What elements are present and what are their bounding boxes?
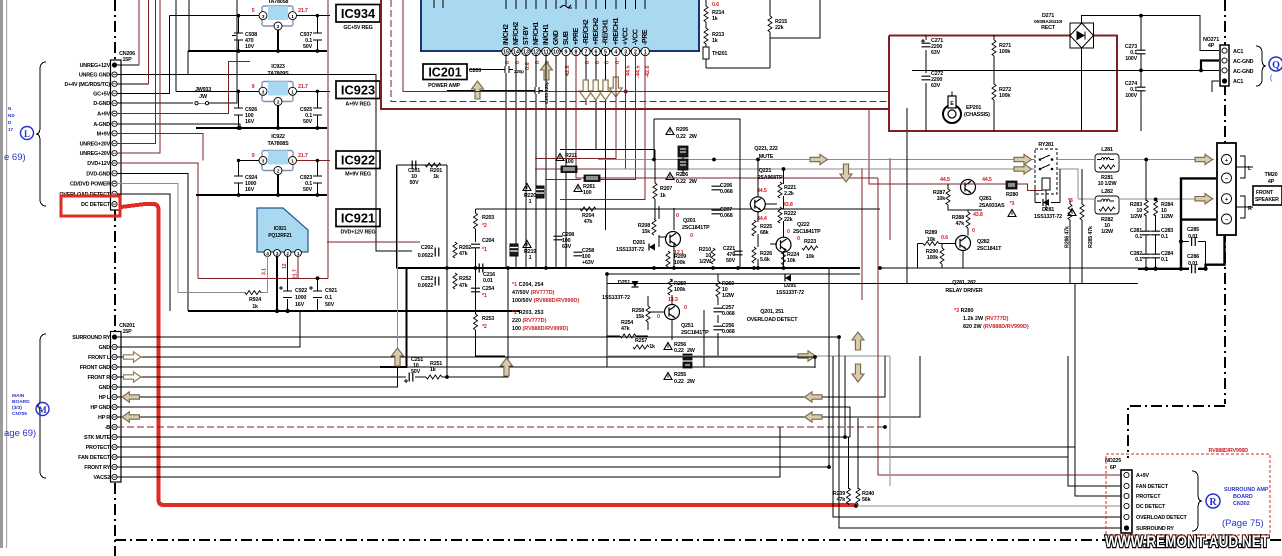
svg-text:TA78058: TA78058 — [268, 0, 289, 5]
resistor R209 — [666, 251, 686, 267]
svg-text:A+9V: A+9V — [1136, 473, 1149, 479]
speaker terminal block TM201 — [1217, 143, 1236, 235]
wire AC-GND long — [912, 69, 1219, 71]
wire bridge bottom — [1081, 48, 1083, 131]
connector NO225 pin labels — [1136, 473, 1188, 532]
capacitor C922 — [279, 256, 307, 311]
page edge line — [6, 0, 7, 548]
svg-text:C921: C921 — [325, 288, 337, 294]
svg-text:AC-GND: AC-GND — [1233, 69, 1254, 75]
svg-text:HP L: HP L — [99, 395, 111, 401]
main bus y268 — [397, 267, 860, 269]
capacitor C254 — [471, 286, 494, 299]
arrow right FRONT R — [124, 372, 142, 382]
resistor R261 boxed — [574, 175, 600, 196]
resistor R271 — [992, 40, 1011, 56]
maroon rail dashed y101.6 — [391, 0, 889, 102]
maroon rail to relay coil — [930, 180, 1035, 185]
wire pin2 maroon -VCC — [545, 54, 635, 179]
svg-text:PQ12RF21: PQ12RF21 — [268, 233, 292, 239]
wire UNREG+12V — [117, 64, 139, 66]
wire pin7 stub — [585, 54, 587, 105]
connector CN201 body — [111, 332, 122, 483]
svg-text:1/2W: 1/2W — [1161, 214, 1174, 220]
svg-text:6P: 6P — [1110, 465, 1117, 471]
maroon stub y242 — [327, 241, 420, 243]
svg-text:50V: 50V — [410, 180, 420, 186]
svg-text:1: 1 — [529, 199, 532, 205]
svg-text:0.01: 0.01 — [1188, 261, 1198, 267]
wire pin10 down — [555, 56, 557, 268]
blue note MAIN BOARD (3/3) — [12, 393, 30, 417]
circled M — [36, 403, 49, 416]
box FRONT SPEAKER — [1253, 186, 1282, 205]
svg-text:1k: 1k — [712, 38, 718, 44]
svg-text:1k: 1k — [712, 16, 718, 22]
svg-text:HP R: HP R — [98, 415, 110, 421]
svg-text:16V: 16V — [245, 187, 255, 193]
svg-text:IC923: IC923 — [271, 64, 285, 70]
svg-text:DVD+12V: DVD+12V — [87, 161, 110, 167]
svg-text:UNREG GND: UNREG GND — [79, 73, 110, 79]
svg-text:IC922: IC922 — [271, 134, 285, 140]
resistor R221 — [778, 182, 796, 198]
wire IC934 output — [297, 15, 331, 17]
svg-text:R203: R203 — [482, 215, 494, 221]
svg-text:GC+5V REG: GC+5V REG — [343, 25, 372, 31]
svg-text:AC1: AC1 — [1233, 49, 1243, 55]
IC201 internal arrow glyph — [560, 5, 572, 8]
svg-text:1/2W: 1/2W — [722, 293, 735, 299]
svg-text:0.22: 0.22 — [676, 179, 686, 185]
svg-text:BOARD: BOARD — [12, 399, 30, 405]
svg-text:SURROUND RY: SURROUND RY — [72, 335, 110, 341]
svg-text:Q282: Q282 — [977, 239, 990, 245]
svg-text:R252: R252 — [459, 276, 471, 282]
svg-text:1SS133T-72: 1SS133T-72 — [1034, 214, 1062, 220]
svg-text:VACS2: VACS2 — [93, 475, 110, 481]
wire pin13 down — [525, 54, 527, 268]
svg-text:C203: C203 — [469, 68, 481, 74]
svg-text:IC922: IC922 — [341, 153, 375, 168]
wire UNREG+20V a — [117, 0, 155, 143]
svg-text:A-GND: A-GND — [93, 122, 110, 128]
svg-text:−: − — [1225, 218, 1228, 224]
capacitor C925 — [300, 91, 322, 128]
svg-text:43.8: 43.8 — [783, 202, 793, 208]
svg-text:0: 0 — [690, 233, 693, 239]
svg-text:2W: 2W — [689, 134, 698, 140]
svg-text:PROTECT: PROTECT — [86, 445, 111, 451]
svg-text:0.1: 0.1 — [1161, 234, 1168, 240]
svg-text:15k: 15k — [642, 229, 651, 235]
svg-text:0.068: 0.068 — [720, 189, 733, 195]
svg-text:R253: R253 — [482, 316, 494, 322]
svg-text:13.3: 13.3 — [668, 297, 678, 303]
svg-text:-RE/CH2: -RE/CH2 — [583, 19, 590, 45]
svg-text:L: L — [24, 129, 30, 139]
resistor R240 — [856, 418, 874, 505]
capacitor C202 — [418, 245, 439, 259]
svg-text:*2: *2 — [482, 223, 487, 229]
svg-text:1/2W: 1/2W — [1130, 214, 1143, 220]
resistor R219 boxed — [510, 241, 536, 262]
svg-text:0: 0 — [787, 229, 790, 235]
svg-text:-VCC: -VCC — [632, 29, 639, 45]
svg-text:50V: 50V — [303, 187, 313, 193]
svg-text:+: + — [1225, 158, 1228, 164]
svg-text:1SS133T-72: 1SS133T-72 — [602, 295, 630, 301]
svg-text:R289: R289 — [925, 230, 937, 236]
resistor R260 — [716, 281, 735, 299]
svg-text:R206: R206 — [676, 172, 688, 178]
wire bridge top to AC1 — [1082, 16, 1219, 51]
maroon rail right mid — [535, 57, 616, 158]
wire HP R — [117, 356, 920, 417]
resistor R285 — [1080, 204, 1094, 248]
jumper JW933 — [195, 87, 211, 105]
svg-text:100k: 100k — [674, 287, 685, 293]
label box IC934 — [336, 5, 380, 32]
svg-text:Q221, 222: Q221, 222 — [754, 146, 778, 152]
regulator IC934 TA78058 — [259, 0, 297, 30]
resistor R220 boxed — [523, 184, 544, 206]
arrow right speaker lower — [1195, 194, 1213, 204]
resistor R215 — [768, 16, 787, 32]
wire DVD-GND — [117, 173, 188, 311]
capacitor C923 — [300, 161, 322, 196]
vertical riser c — [844, 356, 846, 437]
resistor R287 — [933, 189, 950, 205]
wire C273 column — [1140, 16, 1142, 131]
arrow down tan c — [599, 80, 612, 100]
thermistor TH201 — [703, 47, 727, 59]
resistor R252 — [453, 273, 471, 289]
capacitor C203 — [469, 66, 524, 74]
svg-text:+VCC: +VCC — [623, 27, 630, 45]
svg-text:0.0022: 0.0022 — [418, 253, 433, 259]
wire pin6 stub — [560, 54, 596, 150]
svg-text:EP201: EP201 — [966, 105, 981, 111]
svg-text:2SC1841TP: 2SC1841TP — [681, 330, 709, 336]
svg-text:PROTECT: PROTECT — [1136, 494, 1161, 500]
svg-text:47k: 47k — [584, 219, 593, 225]
wire FRONT R cont — [415, 268, 508, 377]
label box IC921 — [336, 209, 380, 236]
svg-text:ST-BY: ST-BY — [523, 26, 530, 45]
svg-text:21.7: 21.7 — [298, 153, 308, 159]
svg-text:Q201: Q201 — [683, 218, 696, 224]
capacitor C204 — [471, 238, 494, 268]
svg-text:100/50V (RV888D/RV999D): 100/50V (RV888D/RV999D) — [512, 298, 579, 304]
svg-text:15P: 15P — [123, 329, 133, 335]
arrow right speaker upper — [1195, 154, 1213, 164]
wire AC-GND thick jumper — [1201, 61, 1219, 71]
svg-text:1SS133T-72: 1SS133T-72 — [776, 290, 804, 296]
circled L — [21, 127, 34, 140]
ground bus under IC921 — [188, 310, 520, 312]
svg-text:IC934: IC934 — [341, 6, 376, 21]
svg-text:63V: 63V — [562, 244, 572, 250]
arrow right relay lower — [1014, 164, 1032, 174]
svg-text:*1: *1 — [482, 247, 487, 253]
warning triangle relay — [1068, 209, 1076, 216]
svg-text:0: 0 — [684, 305, 687, 311]
brace CN201 — [36, 334, 46, 478]
resistor R224 — [782, 249, 800, 265]
svg-text:WWW.REMONT-AUD.NET: WWW.REMONT-AUD.NET — [1105, 533, 1269, 551]
resistor R208 — [638, 219, 656, 235]
resistor blocks R256 R255 — [683, 354, 692, 368]
svg-text:0.22: 0.22 — [676, 134, 686, 140]
capacitor C924 — [234, 161, 257, 196]
svg-text:RELAY DRIVER: RELAY DRIVER — [945, 288, 982, 294]
regulator IC922 TA7808S — [259, 134, 297, 175]
capacitor C216 — [479, 264, 495, 285]
svg-text:*3: *3 — [1010, 201, 1015, 207]
arrow up center b — [501, 358, 513, 376]
wire IC923 pin2 down — [277, 106, 279, 129]
svg-text:0.068: 0.068 — [722, 311, 735, 317]
wire Q251 connections — [648, 279, 672, 340]
svg-text:Q221: Q221 — [759, 168, 772, 174]
resistor R259 — [668, 279, 686, 295]
svg-text:+PRE: +PRE — [573, 27, 580, 45]
wire GND b — [117, 349, 398, 387]
SECTION-BOTTOM — [4, 165, 1270, 535]
resistor R239 — [833, 437, 851, 505]
svg-text:2.2k: 2.2k — [784, 191, 794, 197]
svg-text:R285 47k: R285 47k — [1088, 226, 1094, 248]
svg-text:RY281: RY281 — [1038, 142, 1053, 148]
connector CN206 pins — [112, 62, 117, 206]
svg-text:100: 100 — [583, 190, 592, 196]
capacitor C251 — [404, 357, 423, 383]
svg-text:NF/CH1: NF/CH1 — [533, 22, 540, 45]
svg-text:15k: 15k — [636, 314, 645, 320]
svg-text:CN705: CN705 — [12, 411, 27, 417]
svg-text:0.01: 0.01 — [483, 278, 493, 284]
svg-text:M: M — [38, 405, 47, 415]
wire D+4V riser — [148, 0, 150, 84]
svg-text:SURROUND AMP: SURROUND AMP — [1224, 487, 1269, 493]
IC201 pin labels — [503, 18, 649, 45]
svg-text:10k: 10k — [787, 258, 796, 264]
SECTION-CENTER — [397, 108, 1042, 385]
resistor R254 — [607, 320, 648, 338]
svg-text:C204: C204 — [482, 238, 494, 244]
wire IC923 input feed — [175, 0, 177, 91]
svg-text:1k: 1k — [433, 174, 439, 180]
capacitor C285 — [1187, 227, 1199, 246]
svg-text:47k: 47k — [621, 326, 630, 332]
wire Q201 connections — [659, 206, 674, 268]
svg-text:+RE/CH1: +RE/CH1 — [613, 18, 620, 45]
capacitor C271 — [921, 38, 943, 56]
resistor R211 boxed — [556, 153, 577, 173]
svg-text:C202: C202 — [421, 245, 433, 251]
capacitor C286 — [1187, 254, 1199, 273]
svg-text:100k: 100k — [999, 49, 1010, 55]
svg-text:1k: 1k — [649, 344, 655, 350]
wire A-GND — [117, 124, 240, 128]
svg-text:(3/3): (3/3) — [12, 405, 22, 411]
junction dots IC921 bus — [275, 276, 320, 313]
capacitor C284 — [1151, 251, 1173, 263]
resistor R256 with warning — [664, 342, 696, 354]
svg-text:100k: 100k — [674, 260, 685, 266]
svg-text:GC+5V: GC+5V — [93, 91, 110, 97]
svg-text:UNREG+12V: UNREG+12V — [80, 63, 111, 69]
mute label — [754, 146, 778, 160]
capacitor C221 — [723, 246, 743, 264]
svg-text:50V: 50V — [303, 44, 313, 50]
brace NO225 — [1192, 471, 1202, 531]
label box IC201 — [423, 64, 467, 89]
svg-text:0.1: 0.1 — [1135, 234, 1142, 240]
diode D281 — [1034, 199, 1062, 220]
svg-text:R255: R255 — [674, 372, 686, 378]
circled Q blue — [1269, 57, 1282, 82]
label relay driver — [945, 280, 982, 294]
svg-text:4P: 4P — [1268, 179, 1275, 185]
diode D291 — [776, 275, 804, 297]
svg-text:FRONT: FRONT — [1256, 190, 1274, 196]
brace NO271 — [1256, 46, 1266, 86]
wire pin5 stub — [605, 54, 607, 230]
svg-text:2SA968TP: 2SA968TP — [758, 175, 783, 181]
resistor R204 — [580, 207, 596, 225]
svg-text:50V: 50V — [325, 302, 335, 308]
svg-text:1k: 1k — [252, 304, 258, 310]
svg-text:HP GND: HP GND — [90, 405, 110, 411]
connector NO271 — [1203, 37, 1254, 92]
svg-text:-PRE: -PRE — [642, 29, 649, 45]
capacitor C281 — [1130, 228, 1151, 240]
wire PSU columns — [926, 35, 994, 131]
svg-text:1000: 1000 — [295, 295, 306, 301]
overload frame top — [607, 273, 860, 275]
wire IC923 ground bus — [196, 127, 327, 129]
svg-text:CN302: CN302 — [1233, 501, 1250, 507]
resistor R286 — [1065, 204, 1073, 248]
svg-text:IC923: IC923 — [341, 83, 375, 98]
svg-text:+: + — [1225, 197, 1228, 203]
maroon bus under IC921 — [198, 277, 328, 279]
wire TH201 column — [706, 0, 820, 68]
arrow down tan a — [579, 80, 592, 100]
svg-text:AC-GND: AC-GND — [1233, 59, 1254, 65]
wire FRONT L — [117, 357, 815, 368]
wire input loop top — [397, 164, 447, 166]
maroon A+9V rail to NO225 — [878, 178, 1122, 475]
svg-text:4: 4 — [614, 50, 617, 56]
wire C285 branch — [1181, 242, 1206, 269]
svg-text:47k: 47k — [459, 251, 468, 257]
svg-text:IN/CH2: IN/CH2 — [503, 24, 510, 45]
arrow up tan a — [472, 81, 484, 99]
svg-text:D281: D281 — [1042, 207, 1054, 213]
resistor R214 — [704, 6, 724, 22]
svg-text:0: 0 — [657, 314, 660, 320]
svg-text:100 (RV888D/RV999D): 100 (RV888D/RV999D) — [512, 326, 568, 332]
svg-text:-42.6: -42.6 — [645, 65, 651, 78]
wire node down from R201 — [446, 165, 448, 378]
svg-text:BOARD: BOARD — [1233, 494, 1253, 500]
transistor Q251 — [657, 305, 709, 337]
svg-text:Q201, 251: Q201, 251 — [760, 309, 784, 315]
svg-text:SPEAKER: SPEAKER — [1255, 197, 1279, 203]
svg-text:M+9V: M+9V — [97, 131, 111, 137]
wire input loop left — [396, 165, 398, 268]
wire FRONT RY — [117, 466, 829, 468]
wire R260 column — [717, 274, 719, 356]
resistor R225 — [752, 220, 772, 236]
svg-text:Q251: Q251 — [681, 323, 694, 329]
wire FRONT GND — [117, 366, 815, 368]
svg-text:IC201: IC201 — [428, 66, 461, 80]
wire speaker R line — [1057, 169, 1214, 199]
svg-text:-B: -B — [105, 425, 111, 431]
wire Q221 connections — [758, 160, 784, 269]
capacitor C938 — [232, 16, 257, 51]
svg-text:Q222: Q222 — [797, 222, 810, 228]
wire UNREG GND — [117, 51, 412, 251]
wire speaker return thick — [1181, 178, 1225, 268]
label box IC923 — [336, 81, 380, 108]
svg-text:63V: 63V — [931, 50, 941, 56]
wire OVERLOAD DETECT — [117, 194, 170, 311]
svg-text:C254: C254 — [482, 286, 494, 292]
svg-text:9: 9 — [565, 50, 568, 56]
board boundary chain line right top — [1224, 0, 1226, 404]
thick bus segment y268 — [1138, 268, 1206, 270]
bracket L channel — [1240, 156, 1245, 178]
svg-text:16V: 16V — [295, 302, 305, 308]
svg-text:100k: 100k — [999, 93, 1010, 99]
wire relay driver verticals — [918, 184, 983, 268]
svg-text:C286: C286 — [1187, 254, 1199, 260]
wire A+9V — [117, 62, 250, 114]
capacitor C258 — [574, 248, 595, 266]
svg-text:0: 0 — [797, 236, 800, 242]
svg-text:(CHASSIS): (CHASSIS) — [964, 112, 990, 118]
IC201 internal pin stubs — [434, 0, 645, 9]
transistor Q201 — [666, 213, 711, 247]
svg-text:1SS133T-72: 1SS133T-72 — [616, 247, 644, 253]
svg-text:TH201: TH201 — [712, 51, 727, 57]
junction dots speaker — [1144, 158, 1208, 271]
svg-text:22k: 22k — [784, 217, 793, 223]
capacitor C257 — [714, 305, 735, 317]
svg-text:0.1: 0.1 — [325, 295, 332, 301]
svg-text:D271: D271 — [1042, 13, 1054, 19]
svg-text:21.7: 21.7 — [298, 8, 308, 14]
board boundary chain line left — [114, 0, 116, 556]
arrow down tan b — [589, 80, 602, 100]
board boundary chain line bottom — [115, 539, 1282, 541]
SECTION-CHIP — [381, 0, 900, 300]
arrow right overload — [798, 351, 816, 361]
arrow right FRONT L — [124, 352, 142, 362]
svg-text:56k: 56k — [862, 497, 871, 503]
svg-text:TA7808S: TA7808S — [268, 141, 290, 147]
svg-text:*1: *1 — [482, 293, 487, 299]
capacitor C937 — [300, 16, 322, 51]
capacitor C207 — [712, 207, 733, 219]
arrow up tan b — [541, 62, 553, 80]
capacitor C274 — [1125, 81, 1146, 99]
